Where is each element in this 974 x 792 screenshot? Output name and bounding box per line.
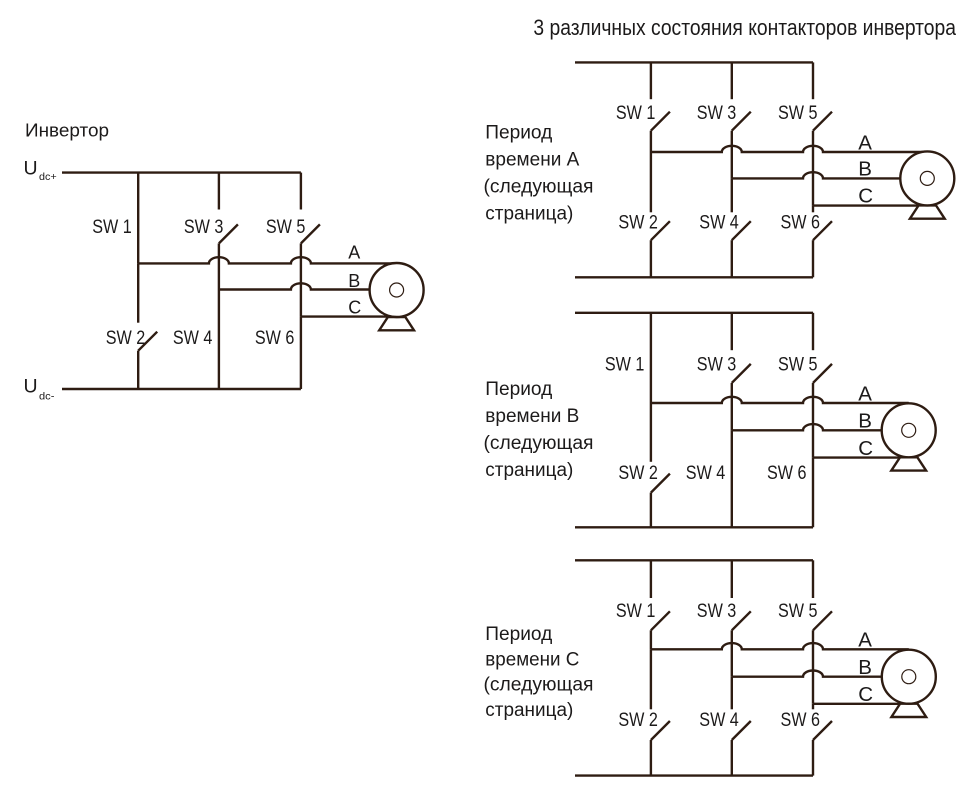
svg-text:Период: Период xyxy=(485,379,552,400)
svg-text:SW 6: SW 6 xyxy=(255,328,295,349)
svg-text:SW 1: SW 1 xyxy=(616,103,656,124)
svg-text:SW 5: SW 5 xyxy=(778,103,818,124)
svg-text:A: A xyxy=(348,243,360,263)
svg-text:dc-: dc- xyxy=(39,390,55,402)
svg-text:страница): страница) xyxy=(485,460,573,481)
svg-text:A: A xyxy=(858,131,872,154)
svg-text:Период: Период xyxy=(485,624,552,645)
svg-text:(следующая: (следующая xyxy=(484,675,594,696)
svg-text:C: C xyxy=(348,298,361,318)
svg-text:страница): страница) xyxy=(485,204,573,225)
svg-text:3 различных состояния контакто: 3 различных состояния контакторов инверт… xyxy=(533,15,956,40)
svg-text:SW 4: SW 4 xyxy=(699,710,739,731)
svg-text:SW 2: SW 2 xyxy=(618,213,658,234)
svg-text:Инвертор: Инвертор xyxy=(25,121,109,141)
svg-text:SW 2: SW 2 xyxy=(618,710,658,731)
svg-text:A: A xyxy=(858,382,872,405)
svg-text:времени A: времени A xyxy=(485,150,579,171)
svg-text:времени B: времени B xyxy=(485,406,579,427)
svg-text:Период: Период xyxy=(485,123,552,144)
svg-text:SW 3: SW 3 xyxy=(184,217,224,238)
svg-text:SW 2: SW 2 xyxy=(618,463,658,484)
svg-text:(следующая: (следующая xyxy=(484,177,594,198)
svg-text:B: B xyxy=(858,410,872,433)
svg-text:SW 5: SW 5 xyxy=(266,217,306,238)
svg-text:B: B xyxy=(858,158,872,181)
svg-text:C: C xyxy=(858,184,873,207)
svg-text:(следующая: (следующая xyxy=(484,433,594,454)
svg-text:B: B xyxy=(348,271,360,291)
svg-text:времени C: времени C xyxy=(485,649,579,670)
svg-text:SW 1: SW 1 xyxy=(616,601,656,622)
svg-text:SW 6: SW 6 xyxy=(767,463,807,484)
svg-text:SW 5: SW 5 xyxy=(778,601,818,622)
svg-text:SW 4: SW 4 xyxy=(173,328,213,349)
svg-text:SW 5: SW 5 xyxy=(778,354,818,375)
svg-text:U: U xyxy=(24,375,38,397)
svg-text:SW 6: SW 6 xyxy=(781,710,821,731)
svg-text:SW 4: SW 4 xyxy=(686,463,726,484)
svg-text:SW 3: SW 3 xyxy=(697,601,737,622)
svg-text:C: C xyxy=(858,437,873,460)
svg-text:dc+: dc+ xyxy=(39,171,57,183)
svg-text:SW 2: SW 2 xyxy=(106,328,146,349)
svg-text:A: A xyxy=(858,629,872,652)
svg-text:SW 4: SW 4 xyxy=(699,213,739,234)
svg-text:SW 6: SW 6 xyxy=(781,213,821,234)
svg-text:SW 3: SW 3 xyxy=(697,103,737,124)
svg-text:страница): страница) xyxy=(485,700,573,721)
svg-text:C: C xyxy=(858,683,873,706)
svg-text:B: B xyxy=(858,656,872,679)
svg-text:SW 3: SW 3 xyxy=(697,354,737,375)
svg-text:U: U xyxy=(24,157,38,179)
svg-text:SW 1: SW 1 xyxy=(92,217,132,238)
svg-text:SW 1: SW 1 xyxy=(605,354,645,375)
